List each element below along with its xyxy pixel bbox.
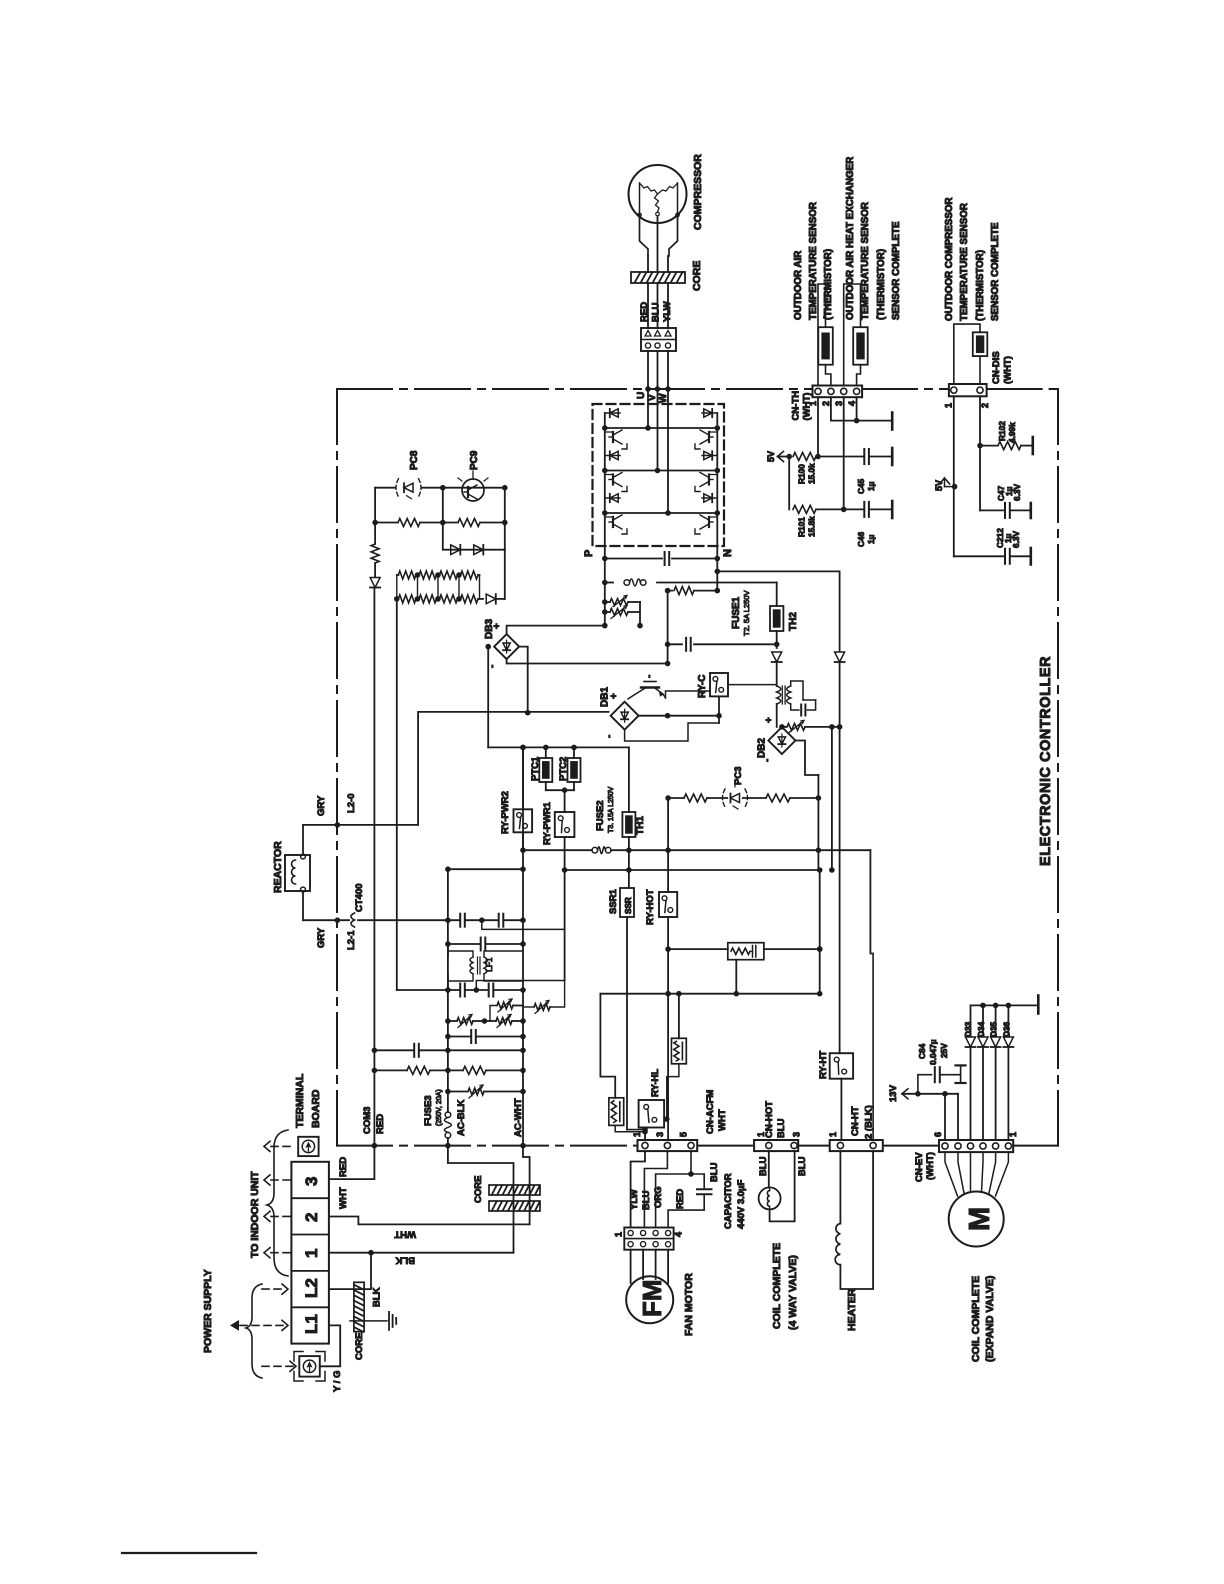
- svg-text:BLK: BLK: [372, 1287, 383, 1307]
- brace power supply: [246, 1284, 262, 1378]
- wire ground link: [350, 1320, 387, 1322]
- capacitor row X1: [461, 914, 465, 927]
- compressor housing: [640, 215, 649, 256]
- compressor winding (3-phase Y): [639, 183, 641, 215]
- svg-text:1: 1: [756, 1132, 766, 1137]
- svg-text:OUTDOOR AIR HEAT EXCHANGER: OUTDOOR AIR HEAT EXCHANGER: [845, 157, 856, 320]
- snubber resistor-capacitor box: [668, 948, 728, 950]
- svg-text:+: +: [492, 623, 503, 629]
- opto-coupler PC3: [728, 792, 742, 804]
- svg-text:TH2: TH2: [788, 612, 799, 631]
- wire WHT: [329, 1217, 530, 1225]
- svg-text:PC9: PC9: [469, 450, 480, 470]
- resistor PC8 load: [399, 517, 419, 528]
- svg-text:1: 1: [944, 403, 954, 408]
- arrow power earth: [262, 1365, 294, 1367]
- wire heater loop: [840, 1151, 873, 1289]
- heater HEATER: [835, 1224, 840, 1265]
- wire U into module: [647, 401, 649, 429]
- connector CN-DIS: [949, 384, 987, 396]
- opto-coupler PC9: [462, 479, 484, 501]
- svg-text:P: P: [583, 550, 595, 557]
- wire fan leads: [630, 1250, 632, 1283]
- svg-text:RED: RED: [375, 1114, 386, 1134]
- wire hot link: [565, 869, 820, 871]
- wire RY-PWR1 rail: [564, 870, 566, 981]
- electronic controller boundary (dash-dot top edge): [337, 388, 1058, 390]
- diode D36: [1007, 1005, 1009, 1036]
- wire rail 831.9: [831, 727, 833, 870]
- svg-text:PC8: PC8: [409, 450, 420, 470]
- inverter left bus P: [604, 413, 606, 546]
- wire R101 row: [788, 457, 790, 510]
- svg-text:L2: L2: [302, 1278, 321, 1298]
- svg-text:D36: D36: [1002, 1021, 1012, 1037]
- resistor row COM: [374, 1069, 523, 1071]
- coil 4-way valve: [759, 1187, 781, 1209]
- svg-text:RED: RED: [675, 1189, 686, 1209]
- svg-text:COIL COMPLETE: COIL COMPLETE: [970, 1276, 982, 1362]
- relay RY-PWR1: [555, 812, 575, 837]
- svg-text:FUSE3: FUSE3: [423, 1095, 434, 1126]
- wire M fanout: [945, 1152, 958, 1196]
- wire CN-DIS pin1 down: [953, 396, 955, 556]
- wire reactor to L2-1: [302, 892, 304, 920]
- svg-text:BLU: BLU: [758, 1156, 769, 1176]
- svg-text:4: 4: [847, 401, 857, 406]
- relay RY-HOT: [667, 798, 669, 892]
- wire DB3 plus to P: [507, 626, 605, 635]
- arrow to indoor (2): [271, 1215, 291, 1217]
- wire CN-TH pin2+4: [831, 397, 891, 420]
- svg-text:D33: D33: [963, 1021, 973, 1037]
- resistor PC9 load: [459, 517, 479, 528]
- svg-text:AC-BLK: AC-BLK: [456, 1099, 467, 1136]
- relay RY-HT: [840, 1052, 842, 1054]
- inverter transistors and diodes: [605, 412, 620, 414]
- svg-text:ORG: ORG: [653, 1186, 664, 1208]
- svg-text:(THERMISTOR): (THERMISTOR): [823, 249, 834, 320]
- svg-text:POWER SUPPLY: POWER SUPPLY: [202, 1269, 214, 1353]
- svg-text:(THERMISTOR): (THERMISTOR): [975, 250, 986, 321]
- svg-text:FUSE2: FUSE2: [595, 800, 606, 831]
- capacitor row COM: [374, 1049, 523, 1051]
- connector CN-HOT: [754, 1140, 798, 1151]
- wire L2 through core: [329, 1253, 371, 1289]
- svg-text:-: -: [644, 675, 655, 678]
- wire mid rail with capacitor: [667, 591, 669, 664]
- svg-text:RY-HL: RY-HL: [650, 1069, 661, 1097]
- thermistor sensor 3 loop: [954, 324, 980, 384]
- svg-text:TEMPERATURE SENSOR: TEMPERATURE SENSOR: [860, 202, 871, 320]
- capacitor C212: [1006, 549, 1010, 564]
- wire 13V to pin6: [944, 1094, 946, 1140]
- resistor ladder (voltage divider): [397, 574, 480, 576]
- choke LF1: [447, 944, 449, 957]
- wire capacitor branch: [691, 1174, 704, 1188]
- arrow power L2: [262, 1288, 286, 1290]
- wire pin5 riser: [957, 1094, 959, 1140]
- wire PC3 row: [668, 797, 818, 799]
- svg-text:CORE: CORE: [473, 1176, 484, 1203]
- wire opto verticals: [374, 488, 376, 523]
- wire DB1 to RY-C: [639, 715, 719, 717]
- electronic controller boundary (dash-dot right edge): [1057, 389, 1059, 1146]
- svg-text:3: 3: [834, 401, 844, 406]
- svg-text:RY-HOT: RY-HOT: [645, 889, 656, 925]
- svg-text:2 (BLK): 2 (BLK): [864, 1105, 875, 1139]
- diode below TH2: [772, 652, 782, 662]
- wire SSR down: [626, 917, 628, 1130]
- wire CN-DIS pin2 down: [979, 396, 981, 510]
- wire DB2 output: [795, 741, 818, 776]
- arrow to indoor (3): [271, 1179, 291, 1181]
- svg-text:RY-C: RY-C: [697, 674, 708, 698]
- fuse FUSE3: [445, 1112, 451, 1118]
- resistor R102: [980, 445, 998, 447]
- wire BLU (fan): [644, 1151, 667, 1227]
- svg-text:BLU: BLU: [709, 1162, 720, 1182]
- svg-text:SSR1: SSR1: [608, 888, 619, 914]
- svg-text:L2-1: L2-1: [346, 930, 357, 950]
- svg-text:WHT: WHT: [394, 1229, 416, 1240]
- svg-text:COIL COMPLETE: COIL COMPLETE: [771, 1243, 783, 1329]
- svg-text:BOARD: BOARD: [310, 1089, 322, 1128]
- wire right rail to heater relay: [839, 571, 841, 651]
- svg-text:C84: C84: [917, 1043, 927, 1059]
- wire sense2: [374, 563, 376, 577]
- electronic controller boundary (dash-dot left edge): [336, 389, 338, 1146]
- relay RY-C: [710, 673, 728, 696]
- svg-text:C45: C45: [856, 478, 866, 494]
- svg-text:15.0k: 15.0k: [807, 463, 817, 484]
- svg-text:L2-0: L2-0: [346, 793, 357, 813]
- wire AC-BLK rail: [447, 869, 449, 1112]
- svg-text:440V 3.0µF: 440V 3.0µF: [736, 1179, 747, 1229]
- connector CN-TH: [813, 386, 863, 398]
- svg-text:SENSOR COMPLETE: SENSOR COMPLETE: [891, 221, 902, 320]
- svg-text:25V: 25V: [939, 1043, 949, 1058]
- compressor motor circle: [629, 165, 687, 223]
- wire L2-1: [303, 919, 349, 921]
- svg-text:3: 3: [792, 1132, 802, 1137]
- svg-text:WHT: WHT: [338, 1187, 349, 1209]
- svg-text:R101: R101: [797, 517, 807, 537]
- capacitor C46: [865, 502, 869, 517]
- wire RED to terminal 3: [329, 1146, 375, 1180]
- svg-text:13V: 13V: [888, 1084, 899, 1102]
- svg-text:5V: 5V: [766, 451, 776, 462]
- arrow to indoor (1): [271, 1252, 291, 1254]
- wire coil A feed: [600, 994, 615, 1098]
- thermistor TH1: [628, 747, 630, 812]
- arrester row Z2: [448, 1020, 457, 1022]
- svg-text:D34: D34: [976, 1021, 986, 1037]
- wire L2-0 riser: [418, 712, 608, 825]
- wire diode row: [443, 523, 505, 550]
- svg-text:SSR: SSR: [624, 897, 633, 914]
- svg-text:ELECTRONIC CONTROLLER: ELECTRONIC CONTROLLER: [1038, 656, 1054, 866]
- thermistor sensor 3: [973, 332, 988, 356]
- svg-text:PC3: PC3: [733, 767, 744, 785]
- svg-text:GRY: GRY: [316, 927, 327, 948]
- svg-text:2: 2: [821, 401, 831, 406]
- core (double, AC lines): [489, 1185, 540, 1195]
- svg-text:1µ: 1µ: [866, 534, 876, 544]
- svg-text:15.8k: 15.8k: [807, 516, 817, 537]
- svg-text:COM3: COM3: [362, 1107, 373, 1134]
- svg-text:6: 6: [933, 1132, 943, 1137]
- svg-text:LF1: LF1: [484, 957, 494, 972]
- svg-text:PTC2: PTC2: [558, 757, 569, 781]
- svg-text:M: M: [964, 1207, 996, 1231]
- inverter right bus N: [716, 413, 718, 546]
- diode D34: [982, 1005, 984, 1036]
- wire AC-WHT rail: [522, 747, 524, 1145]
- svg-text:2: 2: [980, 403, 990, 408]
- resistor PC3 right: [767, 793, 789, 804]
- wire U: [647, 351, 649, 401]
- wire V into module: [657, 401, 659, 471]
- diode pair: [451, 545, 461, 555]
- svg-text:PTC1: PTC1: [530, 756, 541, 781]
- svg-text:1µ: 1µ: [866, 481, 876, 491]
- wire 13V rail: [600, 993, 819, 995]
- svg-text:R102: R102: [997, 421, 1007, 441]
- wire W into module: [667, 401, 669, 514]
- svg-text:1: 1: [828, 1132, 838, 1137]
- svg-text:1: 1: [1008, 1132, 1018, 1137]
- inverter phase row wires: [605, 427, 718, 429]
- svg-text:5V: 5V: [934, 480, 944, 491]
- core CORE (compressor leads): [631, 272, 685, 283]
- arrow power supply feed: [230, 1320, 239, 1331]
- svg-text:TEMPERATURE SENSOR: TEMPERATURE SENSOR: [959, 203, 970, 321]
- relay coil A: [609, 1098, 624, 1126]
- bridge DB3: [494, 634, 519, 659]
- svg-text:(THERMISTOR): (THERMISTOR): [876, 249, 887, 320]
- svg-text:OUTDOOR AIR: OUTDOOR AIR: [793, 251, 804, 320]
- earth terminal (top): [298, 1137, 318, 1156]
- wire ladder rail: [396, 599, 398, 990]
- svg-text:3: 3: [302, 1177, 321, 1186]
- wire diode bus: [971, 1004, 1038, 1006]
- wire AC-WHT through core: [523, 1146, 530, 1225]
- wire reactor to L2-0: [302, 825, 304, 854]
- bridge DB2: [768, 727, 795, 754]
- svg-text:(WHT): (WHT): [1003, 356, 1014, 384]
- svg-text:FAN MOTOR: FAN MOTOR: [683, 1273, 695, 1336]
- wire snubber tap: [735, 960, 737, 994]
- svg-text:CAPACITOR: CAPACITOR: [723, 1173, 734, 1229]
- capacitor fan CAPACITOR: [697, 1190, 712, 1194]
- svg-text:CN-DIS: CN-DIS: [991, 351, 1002, 384]
- thermistor sensor 2 loop: [844, 284, 861, 386]
- brace indoor unit: [267, 1130, 288, 1276]
- svg-text:Y / G: Y / G: [332, 1371, 343, 1392]
- wire RED (fan): [668, 1195, 704, 1227]
- wire P rail: [604, 546, 606, 626]
- svg-text:C46: C46: [856, 531, 866, 547]
- thermistor sensor 1 loop: [818, 284, 826, 386]
- svg-text:FUSE1: FUSE1: [731, 596, 742, 629]
- relay RY-PWR2: [522, 747, 524, 809]
- svg-text:CN-HT: CN-HT: [850, 1106, 861, 1136]
- connector compressor terminal block: [641, 328, 676, 351]
- arrow power L1: [240, 1324, 286, 1326]
- wire compressor leads: [647, 256, 649, 272]
- terminal board: [291, 1162, 329, 1344]
- connector CN-EV: [939, 1140, 1013, 1152]
- svg-text:5: 5: [679, 1132, 689, 1137]
- svg-text:4: 4: [674, 1232, 684, 1237]
- svg-text:OUTDOOR COMPRESSOR: OUTDOOR COMPRESSOR: [944, 197, 955, 321]
- resistor R100: [794, 451, 815, 462]
- svg-text:HEATER: HEATER: [846, 1288, 858, 1331]
- wire CN-TH pin3 down: [843, 397, 845, 509]
- footer rule: [122, 1552, 256, 1554]
- fuse FUSE2: [523, 849, 592, 851]
- svg-text:1: 1: [614, 1232, 624, 1237]
- core (vertical, power lines): [354, 1282, 364, 1331]
- capacitor C84: [918, 1075, 932, 1094]
- wire opto mid row: [375, 522, 505, 524]
- electronic controller boundary (dash-dot bottom edge): [337, 1145, 1058, 1147]
- svg-text:(WHT): (WHT): [925, 1152, 936, 1180]
- svg-text:R100: R100: [797, 464, 807, 484]
- wire N rail: [716, 546, 718, 591]
- arrester Z3: [448, 1091, 468, 1093]
- wire RY-HL to pin1: [644, 1128, 646, 1141]
- svg-text:BLK: BLK: [395, 1255, 415, 1266]
- svg-text:GRY: GRY: [316, 795, 327, 816]
- solid state relay SSR1: [620, 888, 634, 917]
- svg-text:N: N: [722, 549, 734, 557]
- thermistor sensor 2: [853, 327, 868, 365]
- current transformer CT400: [351, 913, 355, 927]
- svg-text:RY-HT: RY-HT: [818, 1051, 829, 1079]
- wire PTC top row: [488, 746, 629, 748]
- resistor N to mid rail: [668, 590, 672, 592]
- arrester row Z1: [498, 1001, 512, 1011]
- earth terminal Y/G: [299, 1356, 320, 1377]
- connector CN-ACFM: [638, 1140, 698, 1151]
- svg-text:RED: RED: [639, 302, 650, 322]
- capacitor P-N link: [605, 558, 662, 560]
- diode D35: [995, 1005, 997, 1036]
- svg-text:2: 2: [302, 1213, 321, 1222]
- wire YLW: [631, 1151, 645, 1227]
- svg-text:1: 1: [632, 1132, 642, 1137]
- connector CN-HT: [830, 1140, 883, 1151]
- svg-text:3: 3: [655, 1132, 665, 1137]
- wire heater feed: [869, 850, 871, 953]
- svg-text:T3. 15A L250V: T3. 15A L250V: [608, 786, 615, 833]
- wire DB3 left down: [487, 647, 489, 748]
- svg-text:(4 WAY VALVE): (4 WAY VALVE): [787, 1255, 799, 1330]
- wire RY-C right: [728, 684, 777, 686]
- opto-coupler PC8: [402, 482, 416, 494]
- wire DB3 bottom: [507, 659, 668, 663]
- capacitor C47: [1006, 503, 1010, 518]
- arrow to indoor (earth): [271, 1145, 291, 1147]
- wire heater left: [839, 1151, 841, 1223]
- svg-text:6.3V: 6.3V: [1011, 530, 1021, 548]
- svg-text:D35: D35: [989, 1021, 999, 1037]
- svg-text:BLU: BLU: [776, 1118, 787, 1138]
- thermistor PTC2: [573, 747, 575, 758]
- expansion valve motor M: [949, 1192, 1004, 1247]
- wire rail 818: [817, 798, 819, 870]
- svg-text:YLW: YLW: [662, 301, 673, 322]
- fuse FUSE1: [605, 582, 613, 584]
- svg-text:(EXPAND VALVE): (EXPAND VALVE): [984, 1276, 996, 1362]
- relay RY-HL: [639, 1100, 665, 1128]
- transistor at DB1: [641, 686, 659, 688]
- svg-text:+: +: [764, 717, 775, 723]
- svg-text:CN-ACFM: CN-ACFM: [705, 1090, 716, 1134]
- capacitor row X2: [448, 943, 523, 945]
- svg-text:BLU: BLU: [651, 302, 662, 322]
- svg-text:-: -: [762, 759, 773, 762]
- varistor pair on P rail: [605, 601, 610, 603]
- thermistor sensor 1: [818, 327, 833, 365]
- thermistor TH2: [776, 583, 778, 607]
- wire W: [667, 351, 669, 401]
- wire opto top row: [375, 487, 395, 489]
- resistor sense: [370, 545, 381, 562]
- bridge DB1: [611, 702, 639, 730]
- wire L1: [320, 1325, 340, 1366]
- svg-text:TH1: TH1: [635, 816, 646, 835]
- wire core to connector: [647, 283, 649, 328]
- capacitor C45: [865, 449, 869, 464]
- svg-text:-: -: [604, 735, 615, 738]
- ground symbol: [388, 1312, 390, 1330]
- svg-text:TEMPERATURE SENSOR: TEMPERATURE SENSOR: [808, 202, 819, 320]
- varistor at DB2: [782, 726, 786, 728]
- capacitor row X4: [448, 1036, 523, 1038]
- reactor REACTOR: [285, 855, 310, 891]
- svg-text:T2. 5A L250V: T2. 5A L250V: [742, 591, 751, 636]
- transformer T1: [777, 686, 781, 704]
- svg-text:TERMINAL: TERMINAL: [294, 1073, 306, 1128]
- wire DB3 right to capacitor node: [519, 647, 528, 713]
- svg-text:BLU: BLU: [797, 1156, 808, 1176]
- wire DB1 bottom loop: [625, 723, 719, 741]
- svg-text:CORE: CORE: [691, 261, 703, 291]
- svg-text:U: U: [636, 392, 647, 399]
- svg-text:AC-WHT: AC-WHT: [513, 1098, 524, 1137]
- resistor PC3 left: [685, 793, 706, 804]
- svg-text:SENSOR COMPLETE: SENSOR COMPLETE: [990, 222, 1001, 321]
- wire ORG: [656, 1151, 691, 1227]
- capacitor row X3: [397, 989, 523, 991]
- wire rail link: [448, 868, 523, 870]
- diode ladder output: [480, 598, 484, 600]
- wire BLK: [329, 1252, 514, 1254]
- svg-text:TO INDOOR UNIT: TO INDOOR UNIT: [249, 1171, 261, 1258]
- wire 4wv pin1: [768, 1151, 770, 1187]
- svg-text:4.99k: 4.99k: [1007, 422, 1017, 443]
- relay coil B: [678, 994, 680, 1039]
- svg-text:RED: RED: [338, 1157, 349, 1177]
- svg-text:WHT: WHT: [717, 1109, 728, 1131]
- svg-text:+: +: [609, 693, 620, 699]
- wire L2-0: [303, 824, 418, 826]
- fan motor FM: [626, 1276, 673, 1323]
- svg-text:YLW: YLW: [629, 1189, 640, 1210]
